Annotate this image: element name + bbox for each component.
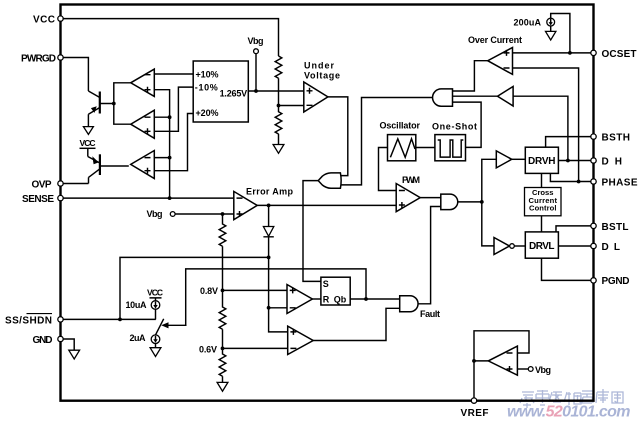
transistor Q1 (PNP, PWRGD output) <box>88 91 113 127</box>
wire OCSET pin to over current comparator <box>513 52 592 54</box>
pin GND <box>33 335 64 346</box>
pin BSTH <box>591 133 630 144</box>
svg-text:200uA: 200uA <box>514 18 542 28</box>
wire PWM AND output to drivers <box>458 159 497 246</box>
svg-text:Under: Under <box>304 61 334 71</box>
wire latch Qb output to fault AND gate <box>350 298 400 300</box>
pin VREF <box>461 398 489 419</box>
svg-text:D H: D H <box>602 156 623 167</box>
svg-text:VCC: VCC <box>147 288 163 298</box>
svg-text:PWRGD: PWRGD <box>21 53 56 64</box>
wire SS/SHDN pin line <box>63 318 156 320</box>
resistor R4 (Vbg divider middle) <box>219 290 226 348</box>
svg-text:-10%: -10% <box>195 82 218 92</box>
svg-text:SS/SHDN: SS/SHDN <box>5 315 52 326</box>
comparator A (+10% window) <box>131 69 155 96</box>
wire buffer to DRVH box <box>512 158 526 160</box>
svg-text:Voltage: Voltage <box>304 71 340 81</box>
junction DH node <box>566 159 570 163</box>
junction driver input node <box>480 200 484 204</box>
svg-text:DRVL: DRVL <box>529 241 555 252</box>
wire under-voltage output to OR gate <box>328 97 348 176</box>
svg-text:Over Current: Over Current <box>468 35 522 45</box>
wire BSTH pin to DRVH <box>546 137 591 148</box>
junction 0.8V comparator input <box>267 306 271 310</box>
wire +10% tap to comparator A inverting input <box>154 73 193 75</box>
junction 0.8V tap <box>221 289 225 293</box>
pin OVP <box>32 179 64 190</box>
svg-text:Fault: Fault <box>420 309 440 319</box>
wire PWM comparator output to PWM AND gate <box>420 197 441 199</box>
wire over current output to AND gate <box>453 61 488 91</box>
junction SENSE vertical at comparator C input <box>168 156 172 160</box>
svg-text:R: R <box>323 295 330 305</box>
wire DRVH to DH pin <box>558 160 591 162</box>
wire error amp output to PWM comparator <box>257 204 396 206</box>
junction 0.6V tap <box>221 347 225 351</box>
svg-text:PWM: PWM <box>402 175 420 185</box>
svg-text:1.265V: 1.265V <box>220 89 248 99</box>
svg-text:One-Shot: One-Shot <box>432 122 477 132</box>
wire DH sense buffer input from DH node <box>513 96 568 160</box>
gate AND Fault <box>400 296 440 320</box>
wire SENSE feedback vertical to window comparators <box>154 90 169 198</box>
op-amp PWM comparator <box>396 175 420 212</box>
svg-text:VREF: VREF <box>461 408 489 419</box>
resistor R2 (under-voltage divider lower) <box>275 106 282 145</box>
resistor R3 (Vbg divider upper) <box>219 214 226 290</box>
pin PHASE <box>591 178 638 189</box>
wire comparator A,B outputs to Q1 base <box>114 83 131 124</box>
svg-text:0.6V: 0.6V <box>199 344 217 354</box>
buffer DH sense (points left) <box>498 87 514 107</box>
wire diode node to fault comparators <box>269 257 288 332</box>
svg-text:PGND: PGND <box>602 276 630 287</box>
junction PHASE node <box>577 180 581 184</box>
svg-text:Control: Control <box>529 203 557 212</box>
ground (under-voltage divider) <box>273 145 284 154</box>
svg-text:VCC: VCC <box>33 14 55 25</box>
current source 10uA <box>126 300 160 319</box>
resistor R1 (under-voltage divider upper) <box>275 56 282 106</box>
svg-text:S: S <box>323 279 329 289</box>
svg-text:2uA: 2uA <box>130 333 147 343</box>
junction Vbg divider top <box>221 212 225 216</box>
junction under-voltage divider tap <box>277 104 281 108</box>
IC border <box>61 5 594 401</box>
junction SENSE vertical at comparator B input <box>168 115 172 119</box>
wire cross current control to DRVL <box>541 216 543 232</box>
op-amp fault comparator 0.8V <box>287 285 312 314</box>
wire +20% tap to comparator C non-inverting input <box>154 114 193 171</box>
wire 0.6V comparator output to fault AND gate <box>313 308 400 340</box>
oscillator box with triangle wave <box>388 135 416 161</box>
block Cross Current Control <box>525 188 562 216</box>
wire PWRGD to Q1 collector <box>63 58 88 92</box>
gate AND main (overcurrent/one-shot, points left) <box>433 89 453 106</box>
reference box 1.265V <box>193 61 248 122</box>
op-amp fault comparator 0.6V <box>288 326 314 354</box>
junction Vbg on 1.265V output <box>254 89 258 93</box>
pin VCC <box>33 14 63 25</box>
wire OVP to Q2 collector <box>63 183 89 185</box>
wire soft-start node to SS pin <box>120 257 269 319</box>
ground (2uA source) <box>150 348 161 357</box>
junction SS line <box>118 318 122 322</box>
svg-text:Oscillator: Oscillator <box>380 121 421 131</box>
wire oscillator to one-shot <box>416 147 435 149</box>
current source 200uA <box>514 18 555 32</box>
wire GND pin to ground <box>63 339 74 350</box>
svg-text:0.8V: 0.8V <box>200 286 218 296</box>
svg-text:Error Amp: Error Amp <box>246 187 294 197</box>
wire 1.265V output to under-voltage comparator <box>248 90 303 92</box>
pin SENSE <box>22 194 63 205</box>
wire Qb to soft-start switch <box>186 269 366 325</box>
svg-text:D L: D L <box>602 242 621 253</box>
comparator B (-10% window) <box>131 110 155 138</box>
op-amp Error Amp <box>234 187 294 220</box>
wire AND output to OR gate <box>341 98 434 185</box>
switch (soft-start select, fault controlled) <box>156 319 187 335</box>
svg-text:+20%: +20% <box>196 108 219 118</box>
wire BSTL pin to DRVL <box>556 226 591 232</box>
junction SENSE line <box>168 196 172 200</box>
svg-text:www.520101.com: www.520101.com <box>507 404 630 421</box>
one-shot box with pulse wave <box>435 135 466 161</box>
wire over current inverting input to PHASE <box>513 68 579 182</box>
wire DH sense buffer output to AND gate <box>453 95 498 97</box>
ground (200uA source) <box>546 31 556 40</box>
wire oscillator to PWM comparator inverting input <box>379 148 397 191</box>
ground (Vbg divider) <box>217 382 228 391</box>
pin DH <box>591 156 622 167</box>
svg-text:BSTH: BSTH <box>602 133 631 144</box>
svg-text:10uA: 10uA <box>126 300 148 310</box>
gate OR (PWM set logic) <box>318 173 341 188</box>
svg-text:Vbg: Vbg <box>535 365 551 375</box>
svg-text:DRVH: DRVH <box>528 156 556 167</box>
pin DL <box>591 242 620 253</box>
gate AND PWM <box>441 194 458 210</box>
transistor Q2 (PNP, OVP input) <box>88 148 129 183</box>
svg-text:PHASE: PHASE <box>602 178 638 189</box>
wire 200uA to OCSET line <box>551 14 570 53</box>
wire -10% tap to comparator B non-inverting input <box>154 87 193 131</box>
power symbol VCC (below Q1 emitter) <box>80 127 96 149</box>
wire VCC rail to under-voltage divider <box>63 19 279 56</box>
junction OCSET line <box>568 51 572 55</box>
wire DRVL to PGND pin <box>542 258 592 280</box>
svg-text:+10%: +10% <box>196 69 219 79</box>
svg-text:OVP: OVP <box>32 179 52 190</box>
node Vbg (top, bandgap tap) <box>248 36 264 91</box>
junction VREF node <box>472 359 476 363</box>
resistor R5 (Vbg divider lower) <box>219 348 226 382</box>
op-amp Under Voltage comparator <box>304 61 340 113</box>
svg-text:SENSE: SENSE <box>22 194 54 205</box>
svg-text:GND: GND <box>33 335 53 346</box>
op-amp Over Current comparator <box>488 48 513 75</box>
wire 0.8V tap to comparator <box>223 289 288 291</box>
svg-text:BSTL: BSTL <box>602 222 629 233</box>
pin BSTL <box>591 222 629 233</box>
ground (GND pin) <box>69 350 80 359</box>
comparator C (+20% OVP) <box>131 151 155 179</box>
svg-text:Vbg: Vbg <box>248 36 264 46</box>
op-amp VREF buffer <box>488 346 517 375</box>
pin PGND <box>591 276 630 287</box>
block DRVL <box>525 232 558 258</box>
svg-text:VCC: VCC <box>80 138 96 148</box>
latch SR (fault latch) <box>321 277 350 305</box>
wire 0.6V tap to comparator <box>223 347 288 349</box>
watermark text bottom right <box>520 389 623 408</box>
junction error amp output <box>267 204 271 208</box>
pin PWRGD <box>21 53 63 64</box>
diode D1 (soft-start clamp) <box>263 205 273 257</box>
wire 0.8V comparator output to latch R input <box>312 298 321 300</box>
buffer driver DRVH <box>496 151 511 168</box>
wire one-shot output to AND gate <box>453 102 482 147</box>
node Vbg (mid, error amp reference) <box>147 209 176 219</box>
junction Q1 base <box>112 102 116 106</box>
svg-text:Qb: Qb <box>334 295 347 305</box>
svg-text:OCSET: OCSET <box>602 49 637 60</box>
junction soft-start node <box>267 256 271 260</box>
pin SS/SHDN <box>5 314 63 327</box>
current source 2uA <box>130 333 160 348</box>
wire fault AND output to PWM AND gate <box>418 207 441 304</box>
wire divider tap to under-voltage comparator inverting input <box>279 105 304 107</box>
power symbol VCC (soft-start source) <box>147 288 163 301</box>
wire DRVH to cross current control <box>541 173 543 187</box>
wire DRVL to DL pin <box>558 245 591 247</box>
pin OCSET <box>591 49 637 60</box>
wire SENSE to error amp inverting input <box>63 197 234 199</box>
buffer driver DRVL (inverting) <box>494 238 525 255</box>
node Vbg (VREF buffer input) <box>517 365 551 375</box>
block DRVH <box>525 147 558 173</box>
wire PHASE pin to DRVH <box>550 173 591 181</box>
wire OR gate output to latch S input <box>303 181 321 282</box>
junction Qb output <box>364 297 368 301</box>
wire Vbg to error amp non-inverting input <box>175 213 234 215</box>
wire VREF node to VREF pin <box>473 361 475 399</box>
svg-text:Vbg: Vbg <box>147 209 163 219</box>
wire VREF buffer feedback loop <box>474 331 529 361</box>
